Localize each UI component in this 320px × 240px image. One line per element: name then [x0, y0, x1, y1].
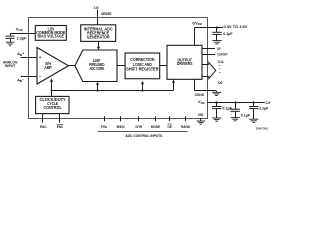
pin ENC stub [42, 114, 44, 123]
bus arrow D13-D0 [202, 62, 216, 78]
label correction logic and shift register [126, 57, 159, 71]
label D0 [218, 81, 222, 85]
clock/duty cycle control block [36, 96, 69, 113]
node AIN- label [17, 78, 24, 83]
wire GND stub [200, 118, 202, 121]
label 2.2uF third [259, 106, 269, 110]
svg-text:VDD: VDD [198, 99, 205, 105]
wire OF output [202, 48, 215, 50]
junction OVDD bypass node [216, 26, 218, 28]
pin ENCbar stub [59, 114, 61, 123]
svg-text:RAND: RAND [181, 125, 190, 129]
14-bit pipelined ADC core block [75, 50, 117, 82]
capacitor 0.1uF VDD first [212, 103, 221, 119]
svg-text:2.2µF: 2.2µF [259, 106, 269, 110]
label ENC bar [57, 124, 64, 129]
ground below VCM capacitor [6, 42, 14, 46]
chip outline U1 [29, 18, 208, 119]
wire VDD supply rail [207, 102, 265, 104]
dots between D13 and D0 [219, 65, 220, 73]
svg-text:VCM: VCM [16, 26, 24, 32]
svg-text:3.3V: 3.3V [265, 101, 271, 105]
svg-text:ENC: ENC [57, 125, 64, 129]
pin RAND stub [185, 116, 187, 121]
label OGND [195, 93, 205, 97]
pin MODE stub [155, 116, 157, 121]
label 14-bit pipelined ADC core [89, 58, 105, 71]
ground below second VDD cap [231, 118, 240, 121]
label 0.5V to 3.6V [224, 25, 249, 29]
wire amp output to ADC core [69, 65, 75, 67]
wire reference generator to ADC core with arrow [97, 41, 100, 50]
pin + of S/H amp [39, 55, 42, 60]
svg-text:D13: D13 [218, 60, 223, 64]
junction VDD cap1 [215, 101, 217, 103]
label figure tag [256, 126, 268, 130]
svg-text:+: + [39, 55, 42, 60]
wire clock to ADC core with arrow [96, 82, 99, 91]
label clock/duty cycle control [39, 97, 66, 110]
capacitor 2.2uF on VCM [6, 34, 15, 43]
ground GND pin [197, 121, 206, 124]
svg-text:D0: D0 [218, 81, 222, 85]
correction logic and shift register block [125, 53, 160, 79]
wire CLKOUT output [202, 54, 215, 56]
svg-text:CONTROL: CONTROL [43, 105, 62, 110]
wire SENSE from 3.3V to reference generator [97, 10, 99, 25]
node 3.3V supply label top [94, 6, 99, 10]
1.25V common mode bias voltage block [35, 26, 66, 41]
wire VCM to bias block [10, 33, 35, 35]
pin DITH stub [138, 116, 140, 121]
svg-text:0.1µF: 0.1µF [223, 32, 233, 36]
svg-text:ENC: ENC [40, 125, 47, 129]
wire OGND from output drivers to ground [195, 79, 217, 90]
ground below OVDD capacitor [212, 41, 221, 44]
label 0.1uF first [222, 107, 232, 111]
ground below third VDD cap [249, 119, 258, 122]
svg-text:GENERATOR: GENERATOR [87, 35, 110, 40]
wire clock to clock box [51, 91, 53, 97]
capacitor 0.1uF VDD second [231, 103, 240, 118]
wire clock to correction logic with arrow [141, 81, 144, 91]
svg-text:MODE: MODE [151, 125, 161, 129]
svg-text:0.1µF: 0.1µF [241, 113, 251, 117]
capacitor 2.2uF VDD third [249, 103, 258, 120]
svg-text:SENSE: SENSE [101, 12, 112, 16]
junction clock node [50, 89, 52, 91]
ground OGND [212, 91, 221, 96]
svg-text:OE: OE [168, 125, 173, 129]
junction VDD cap2 [234, 101, 236, 103]
wire clock to S/H amp with arrow [50, 78, 53, 90]
label S/H AMP [44, 61, 51, 70]
svg-text:2.2µF: 2.2µF [17, 36, 27, 40]
op-amp S/H AMP [37, 48, 69, 85]
wire OVDD to supply [195, 27, 224, 29]
pin VDD label [198, 99, 205, 105]
label ADC control inputs [125, 134, 163, 138]
junction VDD cap3 [252, 101, 254, 103]
svg-text:SHIFT REGISTER: SHIFT REGISTER [126, 67, 159, 72]
svg-text:2245 TA01: 2245 TA01 [256, 126, 268, 130]
label OE bar [168, 124, 173, 129]
node VCM label [16, 26, 24, 32]
svg-text:GND: GND [198, 113, 204, 117]
svg-text:INPUT: INPUT [5, 64, 16, 68]
svg-text:−: − [39, 73, 42, 78]
label OF [217, 47, 221, 51]
wire OVDD down to output drivers [194, 28, 196, 46]
wire AIN- to amp [21, 76, 37, 78]
output drivers block [167, 45, 202, 79]
svg-text:AMP: AMP [44, 65, 51, 70]
svg-text:3.3V: 3.3V [94, 6, 99, 10]
svg-text:ADC CONTROL INPUTS: ADC CONTROL INPUTS [125, 134, 163, 138]
label D13 [218, 60, 223, 64]
label 2.2uF [17, 36, 27, 40]
wire clock distribution [52, 90, 174, 92]
label 0.1uF second [241, 113, 251, 117]
ground below first VDD cap [212, 118, 221, 121]
pin GND label [198, 113, 204, 117]
junction clock at correction logic branch [141, 89, 143, 91]
svg-text:PGA: PGA [101, 125, 107, 129]
svg-text:BIAS VOLTAGE: BIAS VOLTAGE [38, 34, 65, 39]
wire clock to output drivers with arrow [172, 80, 175, 91]
wire ADC core to correction logic [117, 65, 125, 67]
label PGA [101, 125, 107, 129]
label MODE [151, 125, 161, 129]
svg-text:CLKOUT: CLKOUT [217, 52, 228, 56]
wire AIN+ to amp [21, 57, 37, 59]
svg-text:SHDN: SHDN [117, 125, 125, 129]
pin - of S/H amp [39, 73, 42, 78]
pin PGA stub [104, 116, 106, 121]
label SHDN [117, 125, 125, 129]
junction clock at ADC core branch [96, 89, 98, 91]
label RAND [181, 125, 190, 129]
svg-text:0.5V TO 3.6V: 0.5V TO 3.6V [224, 25, 249, 29]
pin OVDD label [192, 20, 202, 26]
label ENC [40, 125, 47, 129]
label DITH [136, 125, 143, 129]
label internal ADC reference generator [84, 27, 113, 40]
label 1.25V common mode bias voltage [36, 27, 65, 39]
svg-text:OVDD: OVDD [192, 20, 202, 26]
wire correction logic to output drivers [160, 65, 167, 67]
internal ADC reference generator block [81, 25, 116, 42]
label CLKOUT [217, 52, 228, 56]
label output drivers [177, 58, 193, 67]
pin SHDN stub [120, 116, 122, 121]
capacitor 0.1uF on OVDD [212, 28, 221, 41]
pin SENSE label [101, 12, 112, 16]
label analog input [3, 60, 18, 68]
label 0.1uF OVDD [223, 32, 233, 36]
bracket line ADC control inputs [98, 131, 188, 133]
label 3.3V right [265, 101, 271, 105]
svg-text:DITH: DITH [136, 125, 143, 129]
pin OE stub [169, 116, 171, 121]
svg-text:DRIVERS: DRIVERS [177, 61, 193, 66]
svg-text:OGND: OGND [195, 93, 205, 97]
svg-text:ADC CORE: ADC CORE [89, 66, 104, 71]
svg-text:0.1µF: 0.1µF [222, 107, 232, 111]
svg-text:OF: OF [217, 47, 221, 51]
node AIN+ label [17, 52, 24, 57]
